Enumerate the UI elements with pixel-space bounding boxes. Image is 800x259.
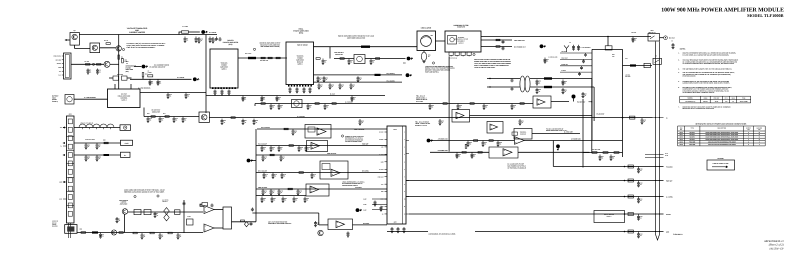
capacitor C4 bulk	[215, 37, 218, 41]
capacitor C105	[280, 155, 283, 159]
resistor R95	[81, 232, 86, 234]
capacitor C74	[359, 119, 362, 123]
svg-text:.01: .01	[273, 200, 275, 202]
svg-text:.01: .01	[458, 155, 460, 157]
stub wires to bus	[645, 154, 664, 156]
capacitor C130	[99, 233, 102, 237]
bead FB10	[92, 231, 98, 233]
bead FB2	[544, 77, 552, 79]
capacitor C53 tp	[577, 45, 580, 49]
svg-text:PWR SET: PWR SET	[666, 180, 672, 182]
off-sheet arrow A+ CNTRL 2	[193, 77, 197, 81]
svg-text:C52 C53: C52 C53	[625, 76, 631, 78]
svg-text:MODEL TLF1000B: MODEL TLF1000B	[747, 13, 784, 18]
wire U1 out rail y92.5	[140, 92, 206, 94]
wire q20 down	[124, 214, 126, 232]
svg-text:R90: R90	[103, 140, 106, 142]
labels +9.6V feeds	[372, 198, 387, 200]
feedthru bead FT5	[628, 230, 633, 231]
svg-text:.01: .01	[640, 218, 642, 220]
svg-text:.01: .01	[255, 122, 257, 124]
svg-text:MODULE: MODULE	[297, 62, 303, 64]
svg-text:.01: .01	[584, 95, 586, 97]
IC U101 op-amp	[307, 141, 328, 152]
wire IPA output to FPA	[238, 57, 287, 59]
wire A+ branch down x206	[205, 35, 207, 114]
svg-text:THE PIN DIODE GATE B.: THE PIN DIODE GATE B.	[342, 185, 359, 187]
wire U50 out	[551, 101, 569, 103]
phase mark C1	[122, 48, 124, 50]
capacitor C120	[85, 143, 88, 147]
junction dot x622/y118	[622, 117, 624, 119]
svg-text:PA (LEAD A): PA (LEAD A)	[387, 73, 396, 75]
IPA bottom pin hatch	[212, 87, 214, 89]
capacitor C122	[85, 155, 88, 159]
resistor R30 series	[261, 57, 265, 59]
wire bridge out	[365, 58, 380, 60]
capacitor C64	[278, 104, 281, 108]
box U53B	[489, 147, 518, 158]
svg-text:11: 11	[759, 134, 761, 136]
bead FB1	[630, 64, 636, 66]
junction dots coupler	[489, 78, 490, 79]
svg-text:U105: U105	[679, 144, 683, 146]
transformer T3 box	[223, 207, 232, 229]
svg-text:Q1: Q1	[73, 29, 75, 32]
svg-text:11: 11	[759, 139, 761, 141]
svg-text:AT 32 VDC: AT 32 VDC	[416, 101, 423, 103]
capacitor C8	[87, 69, 90, 73]
junction dot feed 2	[624, 180, 626, 182]
wire A+ row y117.6 right	[209, 117, 652, 119]
svg-text:MC3371: MC3371	[690, 139, 695, 141]
svg-text:6.: 6.	[678, 86, 680, 89]
svg-text:LIM ADJ: LIM ADJ	[162, 201, 168, 203]
wire low band path y65.5	[623, 65, 653, 67]
box relay driver lower right	[594, 211, 625, 223]
svg-text:8: 8	[748, 144, 749, 146]
svg-text:U100: U100	[679, 132, 683, 134]
wire row 9.6V y127.5	[74, 127, 120, 129]
capacitor C36	[318, 83, 321, 87]
svg-text:PA KEY: PA KEY	[379, 132, 384, 134]
svg-text:A+: A+	[666, 117, 668, 119]
wire U1 bottom drop	[143, 108, 145, 117]
capacitor C14	[185, 93, 188, 97]
svg-text:DESCRIPTION: DESCRIPTION	[718, 127, 727, 129]
thermistor RT1	[572, 95, 576, 99]
svg-text:3: 3	[404, 147, 405, 149]
svg-text:.01: .01	[441, 122, 443, 124]
load R25 termination	[421, 52, 426, 61]
wire row y140.5	[428, 140, 515, 142]
svg-text:.01: .01	[187, 96, 189, 98]
svg-text:HARMONIC FILTER/: HARMONIC FILTER/	[453, 24, 469, 27]
svg-text:DRIVE LEVEL 3: DRIVE LEVEL 3	[416, 97, 427, 99]
capacitor C19 rail	[261, 96, 264, 100]
svg-text:PA V: PA V	[725, 98, 728, 100]
svg-text:DRIVER: DRIVER	[227, 39, 234, 42]
IC U50 pa detect op-amp	[533, 96, 551, 108]
capacitor C106c	[281, 173, 284, 177]
resistor R61	[474, 140, 478, 142]
svg-text:12.5: 12.5	[725, 101, 728, 103]
wire FPA output y46.7	[314, 46, 418, 48]
capacitor C17	[173, 117, 176, 121]
capacitor C135	[159, 233, 162, 237]
capacitor C59	[562, 80, 565, 84]
svg-text:.01: .01	[264, 192, 266, 194]
svg-text:.01: .01	[156, 215, 158, 217]
transistor Q3 on vertical	[116, 46, 121, 51]
resistor R17	[165, 116, 169, 118]
svg-text:A+ ADJUST: A+ ADJUST	[297, 116, 305, 118]
svg-text:SUPPLY: SUPPLY	[746, 127, 751, 129]
svg-text:.01: .01	[280, 192, 282, 194]
svg-text:PWR SET: PWR SET	[362, 143, 369, 145]
svg-text:.01: .01	[300, 149, 302, 151]
svg-text:.01: .01	[294, 132, 296, 134]
svg-text:IF SUPPLY LINE (A+) VOLTAGE IS: IF SUPPLY LINE (A+) VOLTAGE IS CONTROLLE…	[127, 42, 167, 45]
connector J406 audio in	[65, 225, 77, 234]
svg-text:.01: .01	[143, 236, 145, 238]
svg-text:4: 4	[759, 144, 760, 146]
svg-text:TX AUDIO: TX AUDIO	[355, 187, 363, 189]
svg-text:THE K1 ANTENNA RELAY IS ENERGI: THE K1 ANTENNA RELAY IS ENERGIZED IN THE…	[683, 71, 735, 74]
svg-text:.01: .01	[244, 98, 246, 100]
off-sheet arrow row y140.5	[427, 139, 431, 143]
capacitor C93 feed	[637, 214, 640, 219]
svg-text:.01: .01	[263, 149, 265, 151]
svg-text:6: 6	[404, 169, 405, 171]
svg-text:(FROM: (FROM	[52, 99, 57, 101]
svg-text:PWR 1 ADJUST: PWR 1 ADJUST	[354, 129, 365, 131]
svg-text:.01: .01	[313, 176, 315, 178]
resistor R63 vertical	[465, 144, 467, 148]
capacitor C107	[311, 173, 314, 177]
svg-text:MODEL: MODEL	[688, 98, 693, 100]
svg-text:TUNE: TUNE	[742, 98, 746, 100]
wire U53B out	[518, 151, 590, 153]
IC final power amplifier (FPA)	[286, 42, 314, 85]
svg-text:PWR SET: PWR SET	[378, 176, 384, 178]
wire row y195.5 short	[256, 195, 306, 197]
svg-text:A+ CNTRL: A+ CNTRL	[666, 196, 673, 198]
resistor R90	[104, 142, 108, 144]
svg-text:.01: .01	[299, 192, 301, 194]
phase mark C10	[341, 135, 343, 137]
svg-text:1 RF DET: 1 RF DET	[561, 51, 567, 53]
svg-text:C61: C61	[625, 58, 628, 60]
wire row y172.5	[256, 172, 387, 174]
svg-text:K1 B: K1 B	[665, 155, 668, 157]
wire ref power sample	[481, 46, 512, 48]
capacitor C90 feed	[637, 167, 640, 172]
wire FPA detect rail y82.1	[314, 81, 403, 83]
svg-text:11: 11	[404, 206, 406, 208]
wire coupler lower out	[530, 86, 594, 88]
svg-text:.01: .01	[161, 120, 163, 122]
capacitor C45	[502, 40, 505, 44]
svg-text:W1 COAX: W1 COAX	[245, 53, 251, 55]
boxed label A+	[121, 152, 131, 157]
svg-text:4 TEMP: 4 TEMP	[561, 70, 566, 72]
svg-text:12: 12	[404, 214, 406, 216]
IC U104 comparator	[328, 219, 353, 230]
svg-text:AMPLIFIER: AMPLIFIER	[220, 67, 228, 69]
svg-text:.01: .01	[359, 79, 361, 81]
resistor R60 on A+ row	[231, 117, 235, 119]
wire detect to REF arrow	[380, 58, 406, 60]
svg-text:.01: .01	[161, 236, 163, 238]
svg-text:B+ PWR SET: B+ PWR SET	[564, 131, 573, 133]
svg-text:RX MUTE: RX MUTE	[363, 223, 369, 225]
svg-text:.01: .01	[99, 71, 101, 73]
capacitor C69	[483, 104, 486, 108]
capacitor C58	[536, 88, 539, 92]
svg-text:J404: J404	[69, 114, 72, 116]
svg-text:.01: .01	[634, 39, 636, 41]
wire feedback A	[200, 204, 204, 206]
varistor T network	[164, 208, 169, 215]
svg-text:+9.6V: +9.6V	[124, 142, 129, 145]
connector P400/J400 interconnect	[387, 126, 406, 224]
svg-text:TDA1905: TDA1905	[689, 144, 695, 146]
capacitor C137 top	[183, 202, 186, 206]
svg-text:OF FORWARD POWER FED TO: OF FORWARD POWER FED TO	[342, 183, 363, 185]
wire vertical x583	[582, 99, 584, 168]
svg-text:LOSS; ANY REFLECTED POWER FROM: LOSS; ANY REFLECTED POWER FROM THE ANTEN…	[474, 63, 511, 65]
svg-text:.01: .01	[331, 86, 333, 88]
svg-text:ANT: ANT	[651, 30, 654, 32]
svg-text:.01: .01	[317, 224, 319, 226]
resistor R31 series	[268, 57, 272, 59]
svg-text:GND: GND	[58, 67, 61, 69]
capacitor C63	[270, 104, 273, 108]
svg-text:R16: R16	[147, 113, 150, 115]
filter internal element	[448, 36, 457, 45]
svg-text:B+ 9.6V: B+ 9.6V	[330, 94, 335, 96]
svg-text:TELL B 4-6 IF DRIVE: TELL B 4-6 IF DRIVE	[415, 121, 429, 123]
svg-text:.01: .01	[278, 98, 280, 100]
resistor R12 above regulator	[142, 73, 144, 77]
svg-text:.01: .01	[295, 200, 297, 202]
block thermal sensor	[514, 129, 532, 140]
svg-text:PA SET A+ TO 9.6: PA SET A+ TO 9.6	[415, 125, 427, 127]
IC driver power amplifier (IPA)	[210, 49, 238, 88]
svg-text:LINE OF SIGNAL FLOW: LINE OF SIGNAL FLOW	[713, 163, 729, 165]
wire filter RF output y36.5	[481, 36, 651, 38]
off-sheet arrow PA lead A	[406, 73, 410, 77]
capacitor C81	[482, 141, 485, 145]
diode chain CR20-CR24	[79, 124, 86, 127]
svg-text:CIRCULATOR PASSES FORWARD POWE: CIRCULATOR PASSES FORWARD POWER FROM THE	[474, 59, 510, 61]
svg-text:GATE A: GATE A	[297, 64, 302, 66]
capacitor C103	[305, 146, 308, 150]
bead FB3	[544, 86, 552, 88]
svg-text:PA KEY: PA KEY	[666, 214, 671, 216]
capacitor C116 pre-amp	[314, 221, 317, 225]
capacitor C47 circulate	[544, 58, 547, 62]
svg-text:.01: .01	[538, 91, 540, 93]
svg-text:TLF6-4861-A: TLF6-4861-A	[673, 233, 683, 236]
filter box row	[134, 210, 141, 215]
detect rows into sense box	[560, 52, 592, 54]
arrow stubs into ladder	[63, 127, 65, 129]
connector J2 control lines	[64, 53, 72, 79]
ladder segment dividers	[67, 136, 75, 138]
capacitor C101	[261, 146, 264, 150]
svg-text:FACT. TUNED: FACT. TUNED	[740, 101, 748, 103]
svg-text:U101: U101	[679, 134, 683, 136]
capacitor C91 feed	[637, 181, 640, 186]
svg-text:FWD PWR OUT: FWD PWR OUT	[514, 39, 525, 42]
svg-text:TP: TP	[671, 41, 673, 43]
svg-text:+9.6V: +9.6V	[363, 204, 367, 206]
svg-text:.01: .01	[521, 122, 523, 124]
off-sheet arrow down x558	[556, 144, 560, 148]
transformer T2 coupler	[520, 76, 525, 92]
capacitor C21	[212, 37, 215, 41]
capacitor C136	[177, 233, 180, 237]
capacitor C114c	[304, 197, 307, 201]
svg-text:RF OUT: RF OUT	[669, 37, 675, 40]
svg-text:GATE A: GATE A	[121, 99, 126, 101]
svg-text:R12: R12	[145, 74, 148, 76]
wire audio out y221.8	[232, 221, 257, 223]
transistor Q2 current limit	[90, 43, 100, 53]
svg-text:A+ CNTRL: A+ CNTRL	[209, 31, 217, 34]
svg-text:C120 C121 R90: C120 C121 R90	[85, 139, 95, 141]
boxed connector 9.6V	[120, 125, 131, 131]
resistor R2 sense	[106, 43, 110, 45]
capacitor C22	[219, 37, 222, 41]
svg-text:.01: .01	[341, 86, 343, 88]
svg-text:OF FORWARD POWER FED: OF FORWARD POWER FED	[345, 139, 363, 141]
FPA bottom pin hatch	[288, 85, 290, 87]
capacitor C38	[339, 83, 342, 87]
svg-text:B+ 9.6 ADJUSTS TO SET: B+ 9.6 ADJUSTS TO SET	[508, 164, 525, 166]
svg-text:REF: REF	[680, 127, 683, 129]
wire feed row y196	[406, 196, 664, 198]
interconnect left pins	[385, 131, 388, 133]
svg-text:A POWER ADJ: A POWER ADJ	[438, 138, 448, 140]
resistor R26 fwd row	[496, 39, 500, 41]
capacitor C82	[497, 141, 500, 145]
svg-text:R2 .05: R2 .05	[104, 40, 108, 42]
svg-text:.01: .01	[612, 158, 614, 160]
svg-text:PIN: PIN	[758, 129, 760, 131]
svg-text:+9.6V: +9.6V	[363, 199, 367, 201]
svg-text:9.6 VOLT: 9.6 VOLT	[121, 93, 127, 95]
svg-text:PWR ADJUST: PWR ADJUST	[327, 153, 336, 155]
svg-text:MC3371: MC3371	[690, 137, 695, 139]
svg-text:TLN B 4-6 IN DRIVE PIN 'B': TLN B 4-6 IN DRIVE PIN 'B'	[546, 128, 564, 130]
svg-text:TLD9302A: TLD9302A	[221, 63, 228, 65]
svg-text:.01: .01	[320, 86, 322, 88]
svg-text:OF THE FINAL PA MODULE: OF THE FINAL PA MODULE	[508, 167, 526, 169]
resistor R23	[376, 58, 380, 60]
svg-text:A+ ADJUST: A+ ADJUST	[345, 101, 353, 103]
svg-text:DRIVE RF AMPLIFIED OUTPUT: DRIVE RF AMPLIFIED OUTPUT	[260, 43, 281, 45]
resistor R101 feedback	[202, 203, 208, 206]
svg-text:GND: GND	[666, 231, 669, 233]
svg-text:9.6V ADJ: 9.6V ADJ	[117, 74, 123, 76]
svg-text:C138: C138	[187, 216, 190, 218]
capacitor C102	[298, 146, 301, 150]
antenna symbol E1	[564, 45, 569, 52]
capacitor C112	[282, 197, 285, 201]
capacitor C57	[536, 80, 539, 84]
svg-text:SUPPLY): SUPPLY)	[52, 101, 58, 103]
svg-text:.01: .01	[324, 62, 326, 64]
svg-text:.01: .01	[306, 200, 308, 202]
svg-text:PA 1 ADJUST: PA 1 ADJUST	[261, 127, 270, 129]
svg-text:POWER: POWER	[126, 67, 131, 69]
wire Q2 to node	[100, 47, 116, 49]
svg-text:CURRENT LIMITER: CURRENT LIMITER	[129, 31, 146, 34]
capacitor C108	[262, 189, 265, 193]
svg-text:5: 5	[404, 161, 405, 163]
wire coupler upper out	[530, 78, 592, 80]
off-sheet arrow lower feed	[356, 208, 360, 212]
svg-text:A+ LINE NOMINAL: A+ LINE NOMINAL	[84, 97, 96, 99]
svg-text:TX AUD: TX AUD	[379, 169, 384, 171]
diode bridge CR10	[292, 100, 303, 108]
svg-text:A+ CNTRL: A+ CNTRL	[177, 76, 185, 79]
wire REF vertical x449	[448, 56, 450, 151]
svg-text:.01: .01	[159, 82, 161, 84]
capacitor C52 tp	[572, 45, 575, 49]
pot R13 9.6V ADJ	[113, 76, 119, 80]
wire Q4 to vertical	[110, 63, 119, 65]
svg-text:U102: U102	[679, 137, 683, 139]
off-sheet arrow A+ CNTRL	[201, 30, 205, 34]
phase mark C4	[432, 62, 434, 64]
svg-text:CONTROL: CONTROL	[120, 97, 127, 99]
capacitor C17b	[182, 117, 185, 121]
connector J1 RF OUT	[664, 36, 668, 40]
capacitor C101c	[278, 146, 281, 150]
wire circulator to filter	[436, 40, 446, 42]
svg-text:B POWER ADJ: B POWER ADJ	[438, 150, 448, 152]
wire RF detect row y116.5	[144, 116, 199, 118]
junction dot feed 1	[624, 166, 626, 168]
svg-text:RF 1 ADJUST: RF 1 ADJUST	[258, 170, 267, 172]
resistor R100	[168, 232, 172, 234]
svg-text:ANALOG MULTIPLEXER/DEMULTIPLEX: ANALOG MULTIPLEXER/DEMULTIPLEXER	[708, 141, 736, 143]
wire to arrow	[134, 66, 141, 68]
wire vertical x591.8	[591, 79, 593, 154]
wire opamp A out	[214, 209, 223, 211]
capacitor C24	[322, 59, 325, 63]
svg-text:.01: .01	[284, 200, 286, 202]
capacitor C39	[350, 83, 353, 87]
svg-text:RF CNTRL: RF CNTRL	[362, 170, 369, 172]
svg-text:LEGEND: LEGEND	[717, 157, 724, 160]
capacitor C62	[511, 104, 514, 108]
svg-text:.01: .01	[184, 120, 186, 122]
svg-text:GATE C: GATE C	[607, 216, 612, 218]
svg-text:ALC: ALC	[381, 184, 384, 186]
wire top rail y212	[127, 211, 203, 213]
svg-text:SENSOR: SENSOR	[520, 133, 526, 135]
diode bridge CR5	[354, 55, 365, 64]
capacitor C32	[357, 76, 360, 80]
IC U52 op-amp	[487, 122, 503, 134]
capacitor C65	[307, 104, 310, 108]
svg-text:.01: .01	[538, 82, 540, 84]
